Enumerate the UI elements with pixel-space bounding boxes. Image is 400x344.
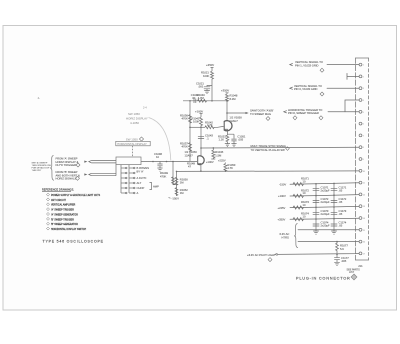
reference bug SW1050: [139, 137, 143, 141]
svg-text:12AU7: 12AU7: [185, 153, 194, 157]
svg-text:FROM 'A' SWEEP: FROM 'A' SWEEP: [56, 156, 78, 160]
svg-text:'B' SWEEP TRIGGER: 'B' SWEEP TRIGGER: [51, 219, 74, 221]
faint pencil notes: [126, 106, 148, 125]
callout from A sweep: [32, 156, 80, 180]
tube V1050A envelope: [224, 121, 232, 131]
svg-text:1.2K: 1.2K: [219, 138, 225, 142]
pin 12: [359, 193, 362, 196]
svg-text:J11: J11: [358, 264, 363, 268]
svg-text:AND BOTH VERT &: AND BOTH VERT &: [56, 173, 80, 177]
pin numbers: [363, 65, 366, 256]
svg-text:VERTICAL AMPLIFIER: VERTICAL AMPLIFIER: [51, 204, 76, 207]
resistor R1052: [175, 177, 178, 185]
svg-text:100K: 100K: [193, 119, 199, 123]
svg-text:BY 'A': BY 'A': [137, 170, 145, 174]
underline reference drawings: [42, 191, 71, 193]
resistor R1051: [226, 134, 229, 143]
svg-text:HORIZONTAL TRIGGER TO: HORIZONTAL TRIGGER TO: [288, 108, 322, 112]
capacitor C1172: [331, 201, 338, 203]
svg-text:+225V: +225V: [278, 206, 286, 210]
switch AMP bracket: [150, 183, 152, 190]
svg-text:-150V: -150V: [279, 182, 286, 186]
capacitor C1071: [313, 189, 320, 191]
node dot R1045 top: [213, 147, 215, 149]
svg-text:+100V: +100V: [278, 194, 286, 198]
capacitor C1174: [331, 224, 338, 226]
svg-text:HORIZONTAL DISPLAY: HORIZONTAL DISPLAY: [117, 142, 147, 146]
wire plate column V1050B: [200, 126, 202, 156]
svg-text:+100V: +100V: [206, 160, 214, 164]
capacitor C1043: [198, 136, 204, 138]
cathode tie bar: [227, 134, 234, 138]
net +100V column: [200, 114, 203, 117]
svg-text:4.7K: 4.7K: [207, 123, 213, 127]
wire W1 horizontal: [183, 100, 227, 102]
switch contact column 2: [128, 165, 130, 193]
svg-text:SW 1050: SW 1050: [128, 112, 140, 116]
svg-text:10: 10: [303, 203, 306, 207]
svg-text:FOR DETAILS OF: FOR DETAILS OF: [32, 167, 50, 170]
wire bus 2 hollow: [89, 173, 116, 175]
node dot W2 a: [152, 161, 154, 163]
svg-text:47: 47: [188, 165, 191, 169]
svg-text:10: 10: [156, 155, 159, 159]
pin 17: [359, 252, 362, 255]
svg-text:1.5M: 1.5M: [215, 153, 222, 157]
svg-text:30: 30: [192, 96, 195, 100]
svg-text:HORIZONTAL DISPLAY SWITCH: HORIZONTAL DISPLAY SWITCH: [51, 228, 86, 231]
wire R1053 column: [224, 163, 226, 164]
svg-text:THIS CKT: THIS CKT: [32, 170, 43, 172]
svg-text:ALT: ALT: [137, 181, 142, 185]
node dot W3 cathode: [200, 170, 202, 172]
wire horiz sig arrow: [227, 112, 246, 114]
pin 6: [359, 122, 362, 125]
wire bus 1 hollow: [89, 160, 116, 163]
svg-text:10: 10: [303, 215, 306, 219]
tube V1050A cathode: [225, 129, 228, 130]
ground C1177: [334, 262, 340, 265]
capacitor C1173: [331, 212, 338, 214]
pin 8: [359, 146, 362, 149]
pin 14: [359, 217, 362, 220]
svg-text:TO VERTICAL PLUG-IN SW: TO VERTICAL PLUG-IN SW: [251, 148, 286, 152]
svg-text:CHOP: CHOP: [137, 186, 145, 190]
brace 6.3VAC: [294, 224, 298, 248]
capacitor C1038: [157, 162, 162, 169]
svg-text:TO SWEEP MAG: TO SWEEP MAG: [250, 112, 271, 116]
svg-text:PIN 8, SWEEP TRIGGER: PIN 8, SWEEP TRIGGER: [288, 111, 319, 115]
svg-text:+6.3V AC PILOT LIGHT: +6.3V AC PILOT LIGHT: [247, 253, 276, 257]
node dot grid leak a: [172, 161, 174, 163]
resistor R1036: [189, 115, 192, 124]
capacitor C1073: [313, 212, 320, 214]
reference bug callout1: [76, 163, 80, 167]
svg-text:B INTENS: B INTENS: [137, 166, 150, 170]
boxed label HORIZONTAL DISPLAY: [116, 141, 150, 146]
resistor R1050: [172, 177, 175, 185]
reference bug callout2: [76, 176, 80, 180]
svg-text:AMP: AMP: [153, 185, 159, 189]
svg-text:5.6: 5.6: [340, 247, 344, 251]
ground column 1: [313, 231, 319, 234]
node arrow out pin3: [290, 87, 293, 89]
wire mult trace sync to pin 8: [201, 146, 359, 149]
node dot grid crossing: [200, 127, 202, 129]
node arrow into bus1: [84, 161, 87, 163]
resistor R1073: [293, 206, 304, 209]
resistor R1071: [293, 183, 304, 186]
pin 11: [359, 181, 362, 184]
resistor R1037: [189, 143, 192, 152]
tube V1050B cathode: [198, 164, 201, 166]
svg-text:DLY'D TRIGGER: DLY'D TRIGGER: [56, 163, 76, 167]
svg-text:+350V: +350V: [221, 89, 229, 93]
svg-text:SW 1050: SW 1050: [126, 138, 138, 142]
node arrow out trigger: [284, 111, 287, 113]
reference list bug diamonds: [47, 193, 50, 230]
svg-text:PIN 1, V1033 GRID: PIN 1, V1033 GRID: [295, 64, 319, 68]
pin 4: [359, 99, 362, 102]
wire W2 switch to grid: [141, 160, 197, 162]
svg-text:12AU7: 12AU7: [230, 119, 239, 123]
net +350V at V1050A plate: [226, 93, 229, 94]
svg-text:.005: .005: [341, 259, 347, 263]
tube V1050A grid bar: [223, 121, 225, 130]
svg-text:SAWTOOTH 'A'&'B': SAWTOOTH 'A'&'B': [250, 108, 274, 112]
wire +350V column to W1: [211, 80, 213, 101]
resistor R1040 inline: [198, 99, 207, 102]
wire +100V rail to pin 12: [290, 195, 359, 196]
svg-text:'A' SWEEP TRIGGER: 'A' SWEEP TRIGGER: [51, 209, 74, 212]
wire bus2 drop: [115, 165, 117, 176]
svg-text:+225V: +225V: [218, 159, 226, 163]
svg-text:470K: 470K: [182, 145, 188, 149]
svg-text:SEE 'A' SWEEP: SEE 'A' SWEEP: [32, 161, 48, 164]
resistor R1053: [224, 164, 227, 172]
wire -150V rail to pin 11: [290, 183, 359, 184]
svg-text:6.3V AC: 6.3V AC: [280, 232, 290, 236]
brace callouts: [50, 156, 54, 181]
wire cathode line to pin 10: [177, 170, 360, 173]
svg-text:2-4: 2-4: [143, 106, 147, 109]
plug-in connector J11 outline: [356, 58, 369, 260]
svg-text:.05: .05: [339, 188, 343, 192]
pin 2: [359, 75, 362, 78]
svg-text:.001: .001: [198, 85, 204, 89]
capacitor C1051: [231, 139, 236, 144]
pin 13: [359, 205, 362, 208]
pin 1: [359, 63, 362, 66]
capacitor C1072: [313, 201, 320, 203]
svg-text:HORIZ DISPLAY &: HORIZ DISPLAY &: [56, 160, 79, 164]
svg-text:470K: 470K: [160, 174, 166, 178]
resistor R1041: [200, 117, 203, 126]
capacitor C1021 stub: [204, 86, 212, 91]
svg-text:+350V: +350V: [206, 63, 214, 67]
capacitor C1074: [313, 224, 320, 226]
wire +225V rail to pin 13: [290, 206, 359, 207]
node arrowhead: [246, 112, 249, 114]
node arrow out pin1: [290, 64, 293, 66]
svg-text:FROM 'B' SWEEP: FROM 'B' SWEEP: [56, 170, 78, 174]
node dot R1053 bottom: [225, 170, 227, 172]
node arrow into bus2: [84, 173, 87, 175]
node dot arrow tap: [226, 112, 228, 114]
wire filter cap column 2: [333, 183, 335, 231]
resistor R1048: [226, 94, 229, 101]
node dot divider tap: [189, 127, 191, 129]
svg-text:POWER SUPPLY & GRATICULE LIGHT: POWER SUPPLY & GRATICULE LIGHT CKTS: [51, 194, 101, 197]
svg-text:HORIZ DISPLAY: HORIZ DISPLAY: [126, 117, 148, 121]
wire 6.3VAC upper to pin 15: [298, 229, 359, 231]
svg-text:REFERENCE DRAWINGS.: REFERENCE DRAWINGS.: [42, 188, 74, 192]
svg-text:HORIZ SIGNALS: HORIZ SIGNALS: [56, 177, 77, 181]
node dot W1-B: [226, 100, 228, 102]
svg-text:'B' SWEEP GENERATOR: 'B' SWEEP GENERATOR: [51, 223, 78, 226]
svg-text:TYPE 546 OSCILLOSCOPE: TYPE 546 OSCILLOSCOPE: [43, 240, 104, 244]
svg-text:8.2M: 8.2M: [230, 97, 237, 101]
node junction dots filter: [315, 183, 335, 220]
svg-text:10: 10: [303, 179, 306, 183]
pin 10: [359, 169, 362, 172]
svg-text:2x20µF: 2x20µF: [321, 188, 330, 192]
tube V1050B envelope: [197, 156, 204, 165]
svg-text:LIST: LIST: [349, 271, 355, 274]
wire grid leak column a: [173, 162, 177, 185]
resistor R1055: [175, 188, 178, 196]
capacitor C1171: [331, 189, 338, 191]
svg-text:100K: 100K: [203, 74, 209, 78]
svg-text:4.7M: 4.7M: [198, 96, 205, 100]
svg-text:A: A: [137, 191, 139, 195]
svg-text:2x20µF: 2x20µF: [321, 212, 330, 216]
svg-text:2x20µF: 2x20µF: [321, 224, 330, 228]
wire plate V1050A: [226, 101, 228, 121]
svg-text:4-1050: 4-1050: [130, 121, 139, 125]
note small left: [32, 161, 52, 172]
wire 6.3VAC lower to pin 16: [298, 241, 359, 243]
wire stub pin 2: [347, 73, 359, 79]
wire pilot light to pin 17: [277, 253, 359, 254]
wire grid to tube: [214, 125, 224, 128]
wire trigger to pin 5: [328, 111, 359, 113]
svg-text:4.7K: 4.7K: [227, 166, 233, 170]
ground column 2: [331, 231, 337, 234]
svg-text:PLUG-IN CONNECTOR: PLUG-IN CONNECTOR: [296, 275, 351, 280]
wire cathode V1050B to W3: [200, 165, 202, 171]
resistor R1021: [211, 71, 214, 80]
resistor R1045 column: [211, 148, 215, 159]
capacitor C1040 inline: [194, 99, 196, 103]
wire grid run V1050A: [190, 126, 205, 128]
wire filter cap column 1: [315, 184, 317, 231]
resistor R1077: [336, 242, 339, 254]
wire vertical signal to pin 3: [327, 87, 359, 89]
svg-text:470K: 470K: [182, 117, 188, 121]
ground C1021: [204, 91, 210, 94]
reference bug diamonds right side: [268, 68, 357, 280]
svg-text:+100V: +100V: [195, 109, 203, 113]
node dot sync crossing: [200, 147, 202, 149]
svg-text:.05: .05: [339, 212, 343, 216]
net +350V supply column: [211, 68, 214, 72]
pin 9: [359, 158, 362, 161]
pin 7: [359, 134, 362, 137]
wire grid leak column b: [176, 171, 178, 196]
node dot V_c top: [189, 100, 191, 102]
svg-text:.005: .005: [238, 138, 244, 142]
node dot grid leak b: [176, 171, 178, 173]
wire +350V rail to pin 14: [290, 218, 359, 219]
svg-text:+350V: +350V: [278, 218, 286, 222]
pencil arc linkage: [149, 118, 171, 161]
svg-text:.05: .05: [339, 200, 343, 204]
switch rotor link dashed: [132, 146, 134, 157]
switch contacts ticks: [121, 167, 135, 194]
svg-text:.05: .05: [339, 224, 343, 228]
pin 3: [359, 87, 362, 90]
node dot W2 b: [166, 161, 168, 163]
switch contact column 1: [120, 165, 122, 193]
node dots R1077: [336, 241, 338, 255]
reference drawings list: [42, 188, 101, 231]
svg-text:2x20µF: 2x20µF: [321, 200, 330, 204]
reference bug sawtooth: [266, 117, 270, 121]
wire cathode V1050A down: [226, 131, 228, 135]
svg-text:MULT-TRACE SYNC SIGNAL: MULT-TRACE SYNC SIGNAL: [251, 144, 287, 148]
svg-text:4-: 4-: [38, 96, 41, 100]
capacitor C1177: [334, 254, 340, 262]
resistor R1074: [293, 218, 304, 221]
svg-text:-150V: -150V: [172, 196, 180, 200]
svg-text:HTRS: HTRS: [282, 236, 290, 240]
tube V1050B grid bar: [197, 156, 199, 164]
svg-text:'A' SWEEP GENERATOR: 'A' SWEEP GENERATOR: [51, 213, 78, 216]
pin 15: [359, 228, 362, 231]
svg-text:CRT CIRCUIT: CRT CIRCUIT: [51, 200, 67, 202]
resistor R1072: [293, 194, 304, 197]
svg-text:PIN 3, V1033 GRID: PIN 3, V1033 GRID: [294, 87, 318, 91]
svg-text:A DLY'D: A DLY'D: [137, 176, 147, 180]
wire elbow to pin 4: [345, 100, 359, 112]
svg-text:VERTICAL SIGNAL TO: VERTICAL SIGNAL TO: [295, 60, 323, 64]
wire vertical signal to pin 1: [327, 64, 359, 66]
wire V_c divider column: [189, 101, 191, 162]
svg-text:10: 10: [303, 191, 306, 195]
node dot W1-A: [211, 100, 213, 102]
svg-text:VERTICAL SIGNAL TO: VERTICAL SIGNAL TO: [294, 84, 322, 88]
ground cathode network: [225, 144, 230, 147]
pin 16: [359, 240, 362, 243]
switch SW1050 wafer box: [116, 157, 141, 165]
pin 5: [359, 110, 362, 113]
net -150V tick: [169, 197, 171, 200]
ground C1038: [157, 168, 162, 171]
resistor R1042 inline: [205, 126, 214, 129]
